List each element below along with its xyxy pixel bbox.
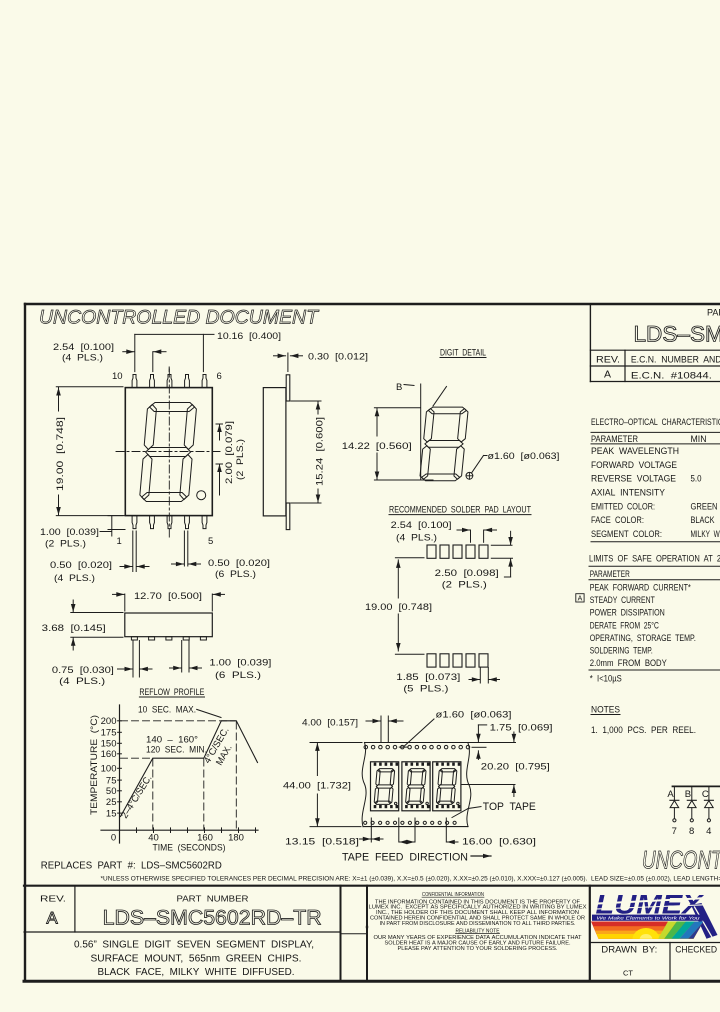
sheet border frame — [25, 303, 720, 305]
svg-text:PART NO.: PART NO. — [707, 308, 720, 318]
digit detail: decimal point — [466, 472, 473, 479]
svg-text:IN PART FROM DISCLOSURE AND DI: IN PART FROM DISCLOSURE AND DISSEMINATIO… — [380, 921, 576, 927]
profile curve — [121, 721, 258, 817]
svg-text:0: 0 — [111, 833, 116, 844]
svg-text:E.C.N. #10844.: E.C.N. #10844. — [631, 370, 712, 381]
title block dividers — [340, 886, 342, 981]
dim 1.00 — [170, 667, 182, 669]
svg-text:ELECTRO–OPTICAL CHARACTERISTI: ELECTRO–OPTICAL CHARACTERISTICS AT 25°C — [591, 417, 720, 427]
svg-text:ø1.60 [ø0.063]: ø1.60 [ø0.063] — [436, 709, 512, 720]
svg-text:MILKY WHITE: MILKY WHITE — [691, 529, 720, 539]
part number block top right — [589, 304, 591, 382]
svg-text:1: 1 — [117, 536, 122, 547]
lumex slogan bar — [592, 915, 704, 921]
diode A — [670, 799, 679, 801]
svg-text:20.20 [0.795]: 20.20 [0.795] — [481, 762, 550, 773]
svg-text:PARAMETER: PARAMETER — [591, 434, 638, 444]
dim 0.50 left (lead width) — [132, 531, 134, 572]
pad pitch dim marks — [470, 530, 472, 542]
dim 19.00 pads — [397, 560, 399, 598]
svg-text:1.75 [0.069]: 1.75 [0.069] — [490, 722, 553, 733]
tape component 2 — [402, 762, 430, 811]
svg-text:44.00 [1.732]: 44.00 [1.732] — [283, 781, 351, 792]
dim 12.70 — [124, 594, 126, 611]
svg-text:0.50 [0.020]: 0.50 [0.020] — [50, 560, 112, 571]
svg-text:REFLOW PROFILE: REFLOW PROFILE — [139, 687, 204, 698]
svg-text:BLACK: BLACK — [691, 515, 715, 525]
dim 10.16 — [135, 333, 214, 335]
svg-text:PLEASE PAY ATTENTION TO YOUR S: PLEASE PAY ATTENTION TO YOUR SOLDERING P… — [398, 946, 558, 952]
svg-text:REV.: REV. — [596, 355, 620, 366]
svg-text:(4 PLS.): (4 PLS.) — [59, 676, 105, 687]
digit detail: 7-segment — [420, 407, 469, 481]
svg-text:We Make Elements to Work for Y: We Make Elements to Work for You — [597, 916, 700, 922]
svg-text:(5 PLS.): (5 PLS.) — [403, 683, 448, 694]
svg-text:TAPE FEED DIRECTION: TAPE FEED DIRECTION — [342, 852, 468, 864]
svg-text:NOTES: NOTES — [591, 705, 620, 715]
tape: top edge — [365, 742, 468, 744]
top pad row — [427, 545, 436, 558]
side view: body — [263, 388, 286, 516]
svg-text:STEADY CURRENT: STEADY CURRENT — [590, 595, 655, 605]
svg-text:A: A — [667, 789, 674, 800]
svg-text:150: 150 — [101, 739, 117, 750]
tape: torn left edge — [362, 743, 366, 827]
dashed reference lines — [121, 720, 236, 722]
svg-text:10 SEC. MAX.: 10 SEC. MAX. — [138, 705, 196, 716]
svg-text:PEAK WAVELENGTH: PEAK WAVELENGTH — [591, 446, 679, 456]
front view: top pins — [132, 375, 137, 388]
bottom side view feet — [131, 637, 137, 640]
dim 15.24 — [291, 400, 321, 402]
svg-text:(2 PLS.): (2 PLS.) — [442, 580, 487, 591]
svg-text:A: A — [578, 596, 583, 603]
svg-text:14.22: 14.22 — [342, 441, 370, 452]
svg-text:1.00 [0.039]: 1.00 [0.039] — [209, 658, 271, 669]
svg-text:(2 PLS.): (2 PLS.) — [235, 439, 246, 480]
svg-text:13.15 [0.518]: 13.15 [0.518] — [285, 837, 359, 848]
terminal circle pin 7 — [673, 819, 676, 822]
svg-text:RECOMMENDED SOLDER PAD LAYO: RECOMMENDED SOLDER PAD LAYOUT — [389, 505, 531, 516]
svg-text:* I˂10µS: * I˂10µS — [590, 674, 622, 684]
svg-text:REVERSE VOLTAGE: REVERSE VOLTAGE — [591, 474, 676, 484]
side view: top lead — [286, 375, 290, 401]
svg-text:2.0mm FROM BODY: 2.0mm FROM BODY — [590, 658, 667, 668]
svg-text:TOP TAPE: TOP TAPE — [483, 801, 536, 813]
drawn by cells — [590, 942, 720, 944]
svg-text:4.00 [0.157]: 4.00 [0.157] — [302, 718, 358, 729]
dim 1.85 pad width — [479, 668, 481, 684]
svg-text:LDS–SMC5602RD–TR: LDS–SMC5602RD–TR — [634, 322, 720, 347]
x axis ticks and labels — [136, 828, 138, 833]
svg-text:25: 25 — [106, 797, 117, 808]
svg-text:(6 PLS.): (6 PLS.) — [215, 569, 256, 580]
svg-text:(4 PLS.): (4 PLS.) — [396, 533, 437, 544]
svg-text:7: 7 — [672, 826, 677, 837]
svg-text:E.C.N. NUMBER AND DATE: E.C.N. NUMBER AND DATE — [631, 355, 720, 366]
svg-text:3.68 [0.145]: 3.68 [0.145] — [42, 623, 106, 634]
diode B — [687, 799, 696, 801]
front view: package body — [125, 388, 212, 516]
svg-text:B: B — [685, 789, 691, 800]
svg-text:200: 200 — [101, 716, 117, 727]
svg-text:0.50 [0.020]: 0.50 [0.020] — [208, 558, 270, 569]
svg-text:1.00 [0.039]: 1.00 [0.039] — [40, 527, 99, 538]
svg-text:DERATE FROM 25°C: DERATE FROM 25°C — [590, 620, 659, 630]
component center extension lines — [370, 818, 372, 842]
front view: 7-segment digit — [139, 403, 197, 502]
svg-text:FACE COLOR:: FACE COLOR: — [591, 515, 644, 525]
svg-text:6: 6 — [217, 371, 222, 382]
bottom side view body — [125, 613, 213, 637]
svg-text:0.30 [0.012]: 0.30 [0.012] — [308, 352, 368, 363]
svg-text:180: 180 — [228, 833, 244, 844]
svg-text:SURFACE MOUNT, 565nm GREEN: SURFACE MOUNT, 565nm GREEN CHIPS. — [91, 954, 302, 965]
dim 0.75 — [118, 668, 133, 670]
svg-text:120 SEC. MIN.: 120 SEC. MIN. — [146, 745, 207, 756]
svg-text:A: A — [604, 369, 611, 381]
svg-text:1.85 [0.073]: 1.85 [0.073] — [396, 672, 460, 683]
svg-text:(4 PLS.): (4 PLS.) — [54, 573, 95, 584]
svg-text:PEAK FORWARD CURRENT*: PEAK FORWARD CURRENT* — [590, 583, 691, 593]
svg-text:C: C — [702, 789, 709, 800]
tape: top sprocket holes — [364, 745, 368, 749]
svg-text:75: 75 — [106, 776, 117, 787]
front view: center lines — [168, 369, 170, 540]
revision marker box — [576, 594, 584, 602]
tape: torn right edge — [467, 743, 471, 827]
svg-text:[0.560]: [0.560] — [376, 441, 412, 452]
svg-text:1. 1,000 PCS. PER REEL.: 1. 1,000 PCS. PER REEL. — [591, 725, 696, 735]
tape component 3 — [433, 762, 461, 811]
tape: bottom sprocket holes — [364, 821, 367, 824]
svg-text:CT: CT — [623, 969, 633, 978]
svg-text:PARAMETER: PARAMETER — [590, 569, 630, 579]
svg-text:(4 PLS.): (4 PLS.) — [62, 353, 103, 364]
wire to terminal A — [673, 808, 675, 819]
svg-text:100: 100 — [101, 764, 117, 775]
svg-text:15: 15 — [106, 809, 117, 820]
dim 0.30 lead thickness — [287, 353, 289, 372]
dim 19.00 left — [56, 386, 123, 388]
svg-text:0.56” SINGLE DIGIT SEVEN S: 0.56” SINGLE DIGIT SEVEN SEGMENT DISPLAY… — [74, 940, 314, 951]
svg-text:19.00 [0.748]: 19.00 [0.748] — [365, 602, 432, 613]
svg-text:15.24 [0.600]: 15.24 [0.600] — [315, 417, 326, 486]
svg-text:175: 175 — [101, 728, 117, 739]
svg-text:ø1.60 [ø0.063]: ø1.60 [ø0.063] — [488, 451, 560, 462]
svg-text:10.16 [0.400]: 10.16 [0.400] — [217, 331, 281, 342]
svg-text:B: B — [396, 382, 402, 393]
tape component 1 — [371, 762, 399, 811]
svg-text:4: 4 — [706, 826, 711, 837]
diode C — [704, 799, 713, 801]
svg-text:EMITTED COLOR:: EMITTED COLOR: — [591, 501, 655, 511]
side view: bottom lead — [286, 503, 290, 530]
dim 3.68 — [71, 612, 123, 614]
schematic: common bus wire — [673, 785, 720, 787]
svg-text:REPLACES PART #: LDS–SMC560: REPLACES PART #: LDS–SMC5602RD — [41, 860, 222, 872]
foot edge extension lines — [132, 641, 134, 678]
wire branch B — [691, 787, 693, 800]
svg-text:OPERATING, STORAGE TEMP.: OPERATING, STORAGE TEMP. — [590, 633, 696, 643]
lumex X tail — [691, 903, 718, 939]
svg-text:(2 PLS.): (2 PLS.) — [45, 539, 86, 550]
title block top line — [24, 885, 720, 887]
svg-text:12.70 [0.500]: 12.70 [0.500] — [134, 591, 202, 602]
terminal circle pin 4 — [707, 819, 710, 822]
dim 14.22 — [374, 407, 420, 409]
svg-text:UNCONTROLLED DOCUMENT: UNCONTROLLED DOCUMENT — [642, 847, 720, 875]
svg-text:FORWARD VOLTAGE: FORWARD VOLTAGE — [591, 460, 677, 470]
svg-text:UNCONTROLLED DOCUMENT: UNCONTROLLED DOCUMENT — [39, 307, 320, 329]
svg-text:SEGMENT COLOR:: SEGMENT COLOR: — [591, 529, 662, 539]
wire to terminal B — [691, 808, 693, 819]
dim 16.00 — [399, 841, 414, 843]
svg-text:PART NUMBER: PART NUMBER — [177, 894, 249, 904]
svg-text:BLACK FACE, MILKY WHITE DI: BLACK FACE, MILKY WHITE DIFFUSED. — [98, 967, 295, 978]
svg-text:2.50 [0.098]: 2.50 [0.098] — [435, 568, 499, 579]
svg-text:DIGIT DETAIL: DIGIT DETAIL — [440, 348, 486, 359]
lumex logo block divider — [589, 886, 591, 981]
svg-text:16.00 [0.630]: 16.00 [0.630] — [462, 837, 536, 848]
svg-text:TIME (SECONDS): TIME (SECONDS) — [153, 843, 226, 854]
svg-text:8: 8 — [689, 826, 694, 837]
terminal circle pin 8 — [690, 819, 693, 822]
svg-text:2–4°C/SEC.: 2–4°C/SEC. — [119, 773, 154, 820]
svg-text:LIMITS OF SAFE OPERATION A: LIMITS OF SAFE OPERATION AT 25°C AMBIENT — [589, 554, 720, 564]
svg-text:(6 PLS.): (6 PLS.) — [215, 670, 261, 681]
svg-text:19.00 [0.748]: 19.00 [0.748] — [55, 417, 66, 491]
svg-text:POWER DISSIPATION: POWER DISSIPATION — [590, 608, 665, 618]
svg-text:AXIAL INTENSITY: AXIAL INTENSITY — [591, 488, 665, 498]
svg-text:MIN: MIN — [691, 434, 707, 444]
svg-text:2.00 [0.079]: 2.00 [0.079] — [224, 421, 235, 484]
pad extension lines left — [395, 557, 424, 559]
tape: bottom edge — [363, 826, 468, 828]
svg-text:*UNLESS OTHERWISE SPECIFIED TO: *UNLESS OTHERWISE SPECIFIED TOLERANCES P… — [101, 876, 720, 883]
svg-text:0.75 [0.030]: 0.75 [0.030] — [52, 665, 114, 676]
svg-text:GREEN: GREEN — [691, 501, 718, 511]
svg-text:LDS–SMC5602RD–TR: LDS–SMC5602RD–TR — [103, 906, 322, 930]
svg-text:5.0: 5.0 — [691, 474, 702, 484]
wire branch A — [673, 787, 675, 800]
svg-text:CHECKED BY:: CHECKED BY: — [675, 945, 720, 956]
svg-text:2.54 [0.100]: 2.54 [0.100] — [391, 520, 452, 531]
svg-text:SOLDERING TEMP.: SOLDERING TEMP. — [590, 646, 653, 656]
svg-text:A: A — [46, 909, 58, 928]
svg-text:DRAWN BY:: DRAWN BY: — [601, 945, 657, 956]
graph axes — [119, 705, 121, 843]
svg-text:160: 160 — [101, 749, 117, 760]
wire branch C — [708, 787, 710, 800]
svg-text:REV.: REV. — [40, 894, 66, 904]
svg-text:10: 10 — [112, 371, 123, 382]
front view: decimal point — [197, 491, 206, 500]
svg-text:2.54 [0.100]: 2.54 [0.100] — [53, 342, 114, 353]
svg-text:50: 50 — [106, 786, 117, 797]
bottom pad row — [427, 654, 436, 667]
wire to terminal C — [708, 808, 710, 819]
front view: bottom pins — [132, 516, 137, 529]
dim 0.50 right (lead width) — [183, 531, 185, 566]
dim 2.50 bracket right — [491, 544, 512, 546]
svg-text:5: 5 — [208, 536, 213, 547]
svg-text:TEMPERATURE (°C): TEMPERATURE (°C) — [89, 715, 100, 815]
